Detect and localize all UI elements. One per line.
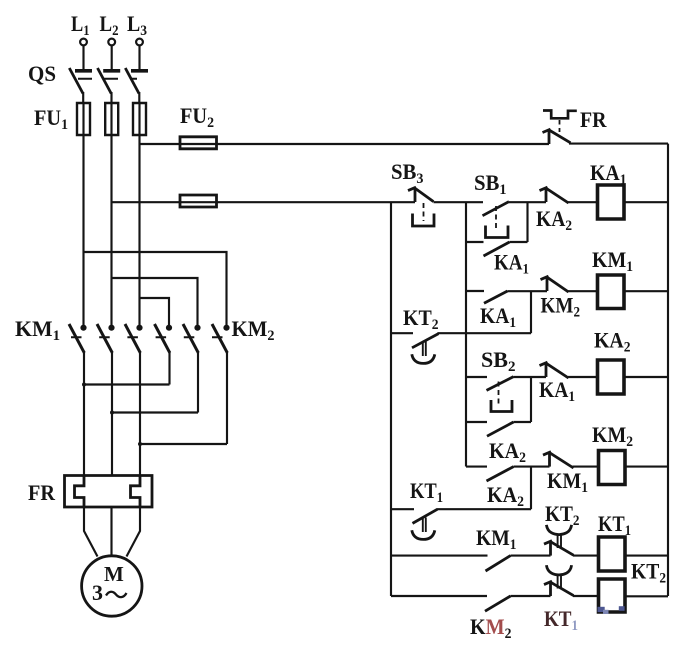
contact KM2 NC rung2 [541,276,569,292]
wire KM2 to KT1 NC [511,595,551,597]
wire KT2NC to KT1 coil [573,555,598,557]
svg-text:KT2: KT2 [403,305,439,333]
coil KT1 [599,537,626,571]
wire KM2 pole1 output to motor U [84,383,170,385]
wire KA2 to KM1 NC [514,466,550,468]
wire L1 drop to QS [82,46,84,69]
svg-text:KA1: KA1 [590,160,627,188]
contact KA2 NC rung1 [540,187,569,203]
svg-text:QS: QS [28,61,56,86]
wire branch1 to vertical [510,241,528,243]
svg-text:KA1: KA1 [494,250,529,278]
svg-text:KT2: KT2 [545,501,580,529]
QS linkage dashed [78,78,137,80]
contactor KM2 main pole 1 [155,324,173,385]
contact KA2 NO self-hold [487,422,514,436]
junction motor W [138,442,142,446]
svg-text:SB3: SB3 [391,159,424,187]
contactor KM2 main pole 3 [212,324,230,444]
svg-text:KM1: KM1 [15,316,60,344]
svg-text:KM2: KM2 [592,422,633,450]
contact KM1 NO rung5 [486,556,511,571]
wire motor lead W [127,507,141,557]
svg-text:KT1: KT1 [410,478,443,506]
wire phase3 vertical [138,103,140,325]
wire KA1 to KM2 NC [508,290,548,292]
wire rung3 stub [466,376,487,378]
right rail [667,144,669,596]
contact KM1 NC rung4 [543,452,574,468]
wire KM2NC to KM1 coil [568,290,598,292]
fuse FU1 pole 3 [133,103,146,135]
wire KT2 contact to link vertical [438,332,532,334]
FR heater element phase3 [131,476,141,507]
node L3 terminal [136,39,143,46]
wire branch3 stub [466,421,487,423]
wire branch phase3 to KM2 pole1 [140,298,170,325]
wire control feed B from phase2 [112,201,416,203]
contactor KM1 main pole 3 [125,324,143,476]
contact KA2 NO rung4 [487,467,514,481]
switch QS pole 3 [125,68,148,103]
wire rung2 stub [466,290,484,292]
KM linkage dashed [71,336,224,338]
wire KT1NC to KT2 coil [573,595,598,597]
wire KA2NC to KA1 coil [568,201,598,203]
svg-text:KA2: KA2 [487,482,524,510]
wire control feed A from phase3 [140,143,550,145]
wire branch phase2 to KM2 pole2 [112,278,198,325]
svg-text:KM1: KM1 [547,468,588,496]
wire KM1 coil to right rail [624,290,668,292]
wire rung6 from left rail [391,595,487,597]
svg-text:KM2: KM2 [232,316,275,344]
coil KM1 [598,275,625,309]
wire KM2 pole3 output to motor W [140,443,227,445]
wire branch3 to vertical [514,421,532,423]
switch QS pole 1 [69,68,92,103]
svg-text:3: 3 [92,580,103,605]
contact KA1 NC rung3 [540,362,569,378]
wire motor lead V [110,507,112,556]
contact KT2 NC delayed open [544,525,574,556]
node L2 terminal [108,39,115,46]
wire SB1 to KA2 NC [509,201,546,203]
svg-text:KM2: KM2 [541,293,581,321]
wire branch1 stub [466,241,484,243]
svg-text:KM1: KM1 [476,525,517,553]
svg-text:SB2: SB2 [481,347,516,375]
svg-text:KM2: KM2 [470,614,512,642]
contactor KM1 main pole 1 [69,324,87,476]
contact KM2 NO rung6 [485,596,511,611]
svg-text:L2: L2 [100,11,119,39]
contactor KM2 main pole 2 [183,324,201,413]
middle rail [465,202,467,466]
svg-text:M: M [104,562,124,586]
svg-text:KA2: KA2 [594,328,631,356]
svg-text:KA1: KA1 [539,377,575,405]
junction motor U [82,383,86,387]
fuse FU1 pole 1 [77,103,90,135]
contact FR NC thermal (control) [543,111,577,145]
wire KM2 pole2 output to motor V [112,411,198,413]
contactor KM1 main pole 2 [97,324,115,476]
wire phase2 vertical [110,103,112,325]
artifact blue dashes at KT2 coil [598,606,625,614]
wire phase1 vertical [82,103,84,325]
fuse FU2 lower [180,195,217,207]
pushbutton SB3 NC stop [408,187,434,226]
wire KT2 coil to right rail [625,595,668,597]
wire L3 drop to QS [138,46,140,69]
wire rung5 from left rail [391,555,488,557]
pushbutton SB1 NO start forward [483,202,510,238]
fuse FU2 upper [180,137,217,149]
coil KT2 [599,579,626,612]
svg-text:L3: L3 [127,11,147,39]
wire KT1 coil to right rail [625,555,668,557]
FR heater element phase1 [75,476,85,507]
svg-text:KT2: KT2 [631,559,666,587]
thermal relay FR heater box [65,476,153,508]
left rail [390,202,392,596]
pushbutton SB2 NO start reverse [487,377,514,412]
wire KA1 coil to right rail [624,201,668,203]
fuse FU1 pole 2 [105,103,118,135]
svg-text:FR: FR [580,107,608,132]
wire SB2 to KA1 NC [514,376,547,378]
svg-text:SB1: SB1 [474,170,507,198]
svg-text:KM1: KM1 [592,247,633,275]
coil KA2 [598,360,625,394]
svg-text:FU2: FU2 [180,103,214,131]
wire KT1 link vertical [530,467,532,510]
wire self-hold vertical rung3 [530,377,532,422]
contact KA1 NO rung2 [484,291,508,303]
svg-text:FR: FR [28,480,56,505]
wire KT1 contact to link vertical [437,508,531,510]
wire L2 drop to QS [111,46,113,69]
wire KT2 link vertical [530,291,532,333]
svg-text:KA1: KA1 [480,303,516,331]
wire KM1NC to KM2 coil [573,466,598,468]
switch QS pole 2 [98,68,121,103]
svg-text:KA2: KA2 [536,206,572,234]
motor M circle [82,556,142,616]
wire rung4 stub [466,466,487,468]
wire branch phase1 to KM2 pole3 [84,252,227,325]
wire KM1 to KT2 NC [511,555,551,557]
wire SB3 to SB1 [434,201,484,203]
contact KA1 NO self-hold [484,242,510,256]
wire KA1NC to KA2 coil [568,376,598,378]
svg-text:FU1: FU1 [34,105,68,133]
contact KT1 NC delayed open [544,565,574,596]
wire KM2 coil to right rail [624,466,668,468]
wire KA2 coil to right rail [624,376,668,378]
svg-text:L1: L1 [71,11,90,39]
svg-text:KA2: KA2 [489,438,526,466]
wire motor lead U [84,507,98,557]
node L1 terminal [80,39,87,46]
wire self-hold vertical rung1 [526,202,528,242]
coil KA1 [598,185,625,219]
junction motor V [110,411,114,415]
contact KT2 NO delayed close [391,333,439,363]
svg-text:KT1: KT1 [598,511,631,539]
coil KM2 [599,451,626,485]
wire feed A right of FR to right rail [569,143,668,145]
svg-text:KT1: KT1 [544,606,578,634]
contact KT1 NO delayed close [391,509,438,539]
